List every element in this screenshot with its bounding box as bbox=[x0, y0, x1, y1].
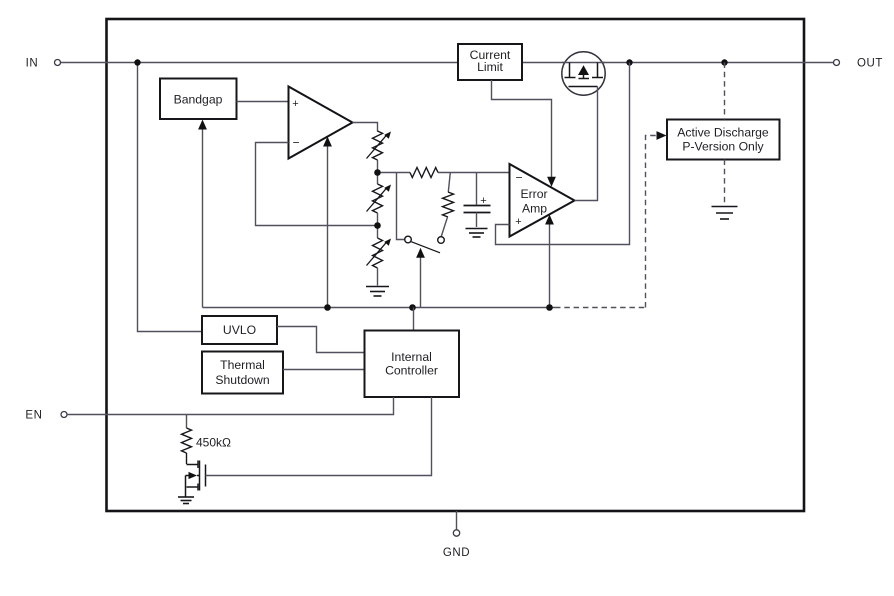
resistor R3 (trimmable, bottom of divider) bbox=[373, 238, 383, 268]
transistor Q1 pass PMOS bbox=[562, 52, 605, 95]
node: divider tap 1 bbox=[374, 169, 381, 176]
block Internal Controller bbox=[365, 331, 460, 398]
block Thermal Shutdown bbox=[202, 352, 283, 394]
wire: IN rail down to UVLO input bbox=[138, 63, 203, 332]
wire: dashed active discharge to ground bbox=[724, 160, 726, 205]
GND pin stem bbox=[456, 511, 458, 530]
wire: U1 output to resistor chain bbox=[353, 123, 378, 132]
block UVLO bbox=[202, 316, 277, 344]
block Active Discharge bbox=[667, 120, 780, 160]
wire: main input/output rail IN to OUT bbox=[61, 62, 834, 64]
resistor R4 (series, horizontal) bbox=[410, 168, 438, 178]
svg-text:OUT: OUT bbox=[857, 58, 883, 70]
wire: control line from bus into U1 (arrow) bbox=[327, 144, 329, 308]
EN terminal bbox=[61, 412, 67, 418]
svg-text:Amp: Amp bbox=[522, 202, 547, 216]
transistor Q2 EN pulldown bbox=[186, 461, 206, 497]
node: bus dot U2 branch bbox=[546, 304, 553, 311]
capacitor C1 bbox=[476, 173, 478, 205]
wire: R2 to R3 bbox=[377, 213, 379, 238]
svg-text:IN: IN bbox=[26, 58, 39, 70]
wire: R1 to R2 bbox=[377, 160, 379, 184]
ground: divider ground bbox=[366, 287, 389, 297]
ground: Q2 source ground bbox=[178, 497, 194, 504]
svg-text:Controller: Controller bbox=[385, 364, 438, 378]
svg-text:Thermal: Thermal bbox=[220, 358, 265, 372]
IC boundary box bbox=[107, 19, 805, 511]
wire: R3 to ground bbox=[377, 268, 379, 286]
svg-text:+: + bbox=[480, 195, 486, 207]
block Current Limit bbox=[458, 44, 522, 80]
wire: bandgap output to op-amp + input bbox=[237, 101, 289, 103]
op-amp U2 error amplifier bbox=[510, 164, 575, 237]
wire: dashed control bus to active discharge enable (arrow) bbox=[646, 136, 657, 308]
svg-text:450kΩ: 450kΩ bbox=[196, 436, 231, 450]
wire: bus to internal controller top bbox=[413, 308, 415, 331]
svg-text:EN: EN bbox=[25, 410, 42, 422]
ground: capacitor ground bbox=[466, 229, 488, 238]
svg-text:+: + bbox=[515, 216, 521, 228]
wire: U2 output to Q1 gate bbox=[575, 87, 598, 201]
node: divider tap 2 bbox=[374, 222, 381, 229]
wire: tap1 to error amp inverting input bbox=[381, 172, 411, 174]
svg-text:Error: Error bbox=[520, 187, 547, 201]
IN terminal bbox=[55, 60, 61, 66]
wire: Q2 gate to internal controller bbox=[206, 397, 432, 476]
op-amp U1 bbox=[289, 87, 353, 159]
ground: active discharge ground bbox=[712, 207, 738, 220]
wire: thermal shutdown to internal controller bbox=[283, 369, 365, 371]
wire: control line from bus into bandgap (arrow) bbox=[202, 127, 204, 308]
svg-text:GND: GND bbox=[443, 547, 470, 559]
switch S1 blade bbox=[411, 242, 440, 253]
resistor R5 (bypass leg to switch right pole) bbox=[448, 173, 450, 193]
wire: branch down to switch left pole bbox=[397, 173, 405, 240]
wire: control line from bus into U2 (arrow) bbox=[549, 222, 551, 308]
svg-text:Shutdown: Shutdown bbox=[215, 373, 269, 387]
svg-text:UVLO: UVLO bbox=[223, 323, 256, 337]
wire: UVLO to internal controller bbox=[277, 327, 365, 353]
node: junction dot on rail active-discharge branch bbox=[721, 59, 727, 65]
wire: trim/control bus bbox=[203, 307, 556, 309]
node: junction dot on rail at IN branch bbox=[134, 59, 140, 65]
node: junction dot on rail feedback branch bbox=[626, 59, 632, 65]
wire: U2 + input feedback from OUT rail bbox=[496, 63, 630, 245]
wire: EN to internal controller bbox=[67, 397, 394, 415]
node: bus dot U1 branch bbox=[324, 304, 331, 311]
resistor R6 450k pulldown bbox=[186, 415, 188, 429]
svg-text:−: − bbox=[292, 136, 299, 150]
svg-text:Active Discharge: Active Discharge bbox=[677, 126, 769, 140]
GND terminal bbox=[453, 530, 459, 536]
svg-text:−: − bbox=[515, 171, 522, 185]
svg-text:Bandgap: Bandgap bbox=[174, 92, 223, 106]
resistor R2 (trimmable, middle of divider) bbox=[373, 184, 383, 213]
wire: switch control from bus (arrow) bbox=[420, 256, 422, 308]
block Bandgap bbox=[160, 79, 237, 120]
svg-text:Internal: Internal bbox=[391, 350, 432, 364]
switch S1 pole contacts bbox=[405, 236, 412, 243]
svg-text:P-Version Only: P-Version Only bbox=[682, 140, 764, 154]
wire: U1 inverting input feedback from divider mid tap bbox=[256, 143, 377, 226]
OUT terminal bbox=[834, 60, 840, 66]
svg-text:Limit: Limit bbox=[477, 60, 503, 74]
svg-text:+: + bbox=[292, 98, 298, 110]
wire: dashed OUT rail to active discharge bbox=[724, 63, 726, 120]
resistor R1 (trimmable, top of divider) bbox=[373, 131, 383, 160]
wire: current limit to error amp (arrow) bbox=[492, 80, 552, 179]
node: bus dot controller branch bbox=[409, 304, 416, 311]
